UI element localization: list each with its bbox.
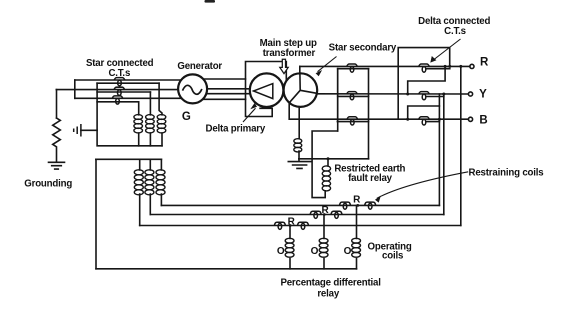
svg-text:C.T.s: C.T.s [108,68,130,79]
svg-text:B: B [479,115,487,127]
svg-text:O: O [311,246,319,257]
svg-text:Generator: Generator [177,61,222,72]
svg-text:R: R [321,205,329,216]
svg-text:R: R [353,195,361,206]
svg-text:Y: Y [479,88,487,100]
svg-text:transformer: transformer [263,48,316,59]
svg-text:G: G [182,111,191,123]
svg-text:Grounding: Grounding [24,178,72,189]
svg-text:Delta primary: Delta primary [206,123,266,134]
svg-text:Restraining coils: Restraining coils [469,168,544,179]
svg-text:Main step up: Main step up [260,38,317,49]
svg-text:O: O [277,246,285,257]
svg-text:Percentage differential: Percentage differential [280,278,380,289]
svg-text:Star connected: Star connected [86,58,154,69]
svg-text:Star secondary: Star secondary [329,43,397,54]
svg-text:R: R [288,217,296,228]
svg-text:C.T.s: C.T.s [444,26,466,37]
svg-text:coils: coils [382,251,403,262]
svg-text:relay: relay [317,289,340,300]
svg-text:R: R [480,57,489,69]
svg-text:fault relay: fault relay [348,173,393,184]
svg-text:O: O [344,246,352,257]
